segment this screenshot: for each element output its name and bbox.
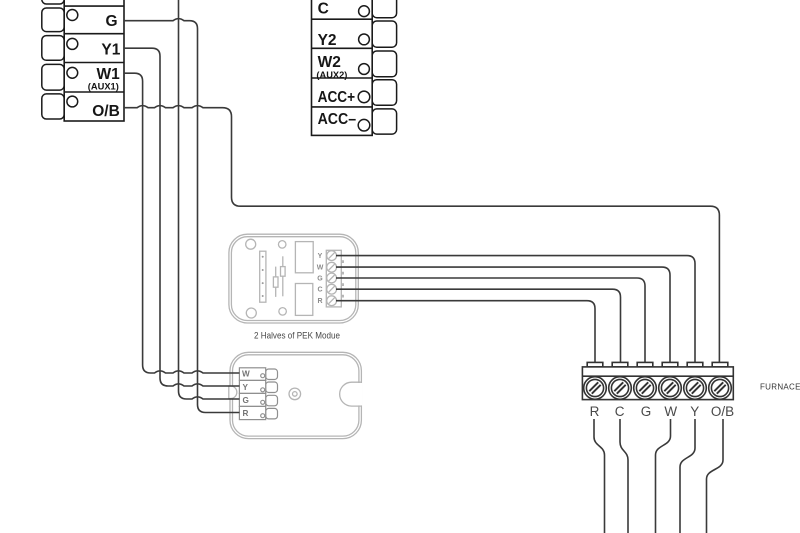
terminal tab Y2: [372, 21, 396, 47]
furnace screw W: [659, 377, 682, 400]
backplate outer case: [230, 352, 361, 438]
wire PEK G to furnace G: [336, 278, 645, 363]
terminal tab W: [266, 369, 278, 380]
svg-text:G: G: [317, 276, 323, 283]
screw hole G: [67, 10, 78, 21]
svg-text:O/B: O/B: [711, 404, 734, 419]
furnace screw G: [634, 377, 657, 400]
component lead right: [282, 256, 284, 296]
left block body: [64, 0, 124, 121]
PEK mounting hole top-left: [246, 239, 256, 249]
relay box top: [295, 242, 313, 273]
svg-text:R: R: [243, 409, 249, 418]
terminal row Y: [239, 380, 265, 393]
screw hole O/B: [67, 96, 78, 107]
row screw W: [261, 374, 265, 378]
row line W1/OB: [64, 91, 124, 93]
backplate inner case line: [233, 355, 359, 436]
svg-text:W: W: [317, 265, 324, 272]
screw hole W1: [67, 67, 78, 78]
screw hole Y2: [359, 34, 370, 45]
screw hole ACC-: [358, 119, 370, 131]
center screw hole outer: [289, 388, 301, 400]
terminal row W: [239, 368, 265, 381]
svg-text:C: C: [615, 404, 625, 419]
wire below furnace Y: [680, 419, 695, 533]
furnace screw C: [609, 377, 632, 400]
wire clamp tab R: [587, 362, 603, 367]
svg-text:ACC–: ACC–: [318, 111, 357, 128]
svg-text:R: R: [590, 404, 600, 419]
PEK screw W: [327, 262, 337, 272]
wire Y1 to backplate Y: [124, 48, 239, 386]
component body left: [273, 277, 278, 287]
relay box bottom: [295, 284, 312, 316]
furnace strip body: [582, 367, 733, 400]
furnace screw R: [584, 377, 607, 400]
svg-text:(AUX1): (AUX1): [88, 82, 119, 92]
svg-text:G: G: [105, 13, 117, 30]
svg-text:W: W: [242, 370, 250, 379]
row line Y1/W1: [64, 62, 124, 64]
furnace screw Y: [684, 377, 707, 400]
wire W1 to backplate W: [124, 73, 239, 373]
wire from top (Rc) down to backplate G: [179, 0, 240, 399]
terminal row R: [239, 406, 265, 419]
terminal tab C (partial): [372, 0, 396, 18]
svg-text:W: W: [664, 404, 677, 419]
svg-text:G: G: [243, 396, 249, 405]
wire PEK Y to furnace Y: [336, 256, 695, 363]
PEK screw R: [327, 296, 337, 306]
wire PEK W to furnace W: [336, 267, 670, 362]
PEK hole top-middle: [278, 241, 286, 249]
component lead left: [275, 267, 277, 297]
svg-text:Y2: Y2: [318, 32, 337, 49]
row line G/Y1: [64, 33, 124, 35]
svg-text:C: C: [317, 287, 322, 294]
wire PEK C to furnace C: [336, 289, 621, 362]
PEK mounting hole bottom-left: [246, 308, 256, 318]
wire PEK R to furnace R: [336, 301, 595, 363]
wire clamp tab C: [612, 362, 628, 367]
svg-text:Y1: Y1: [101, 42, 120, 59]
middle block body: [312, 0, 373, 135]
PEK screw G: [327, 273, 337, 283]
row line Y2/W2: [312, 47, 373, 49]
svg-text:Y: Y: [318, 253, 323, 260]
screw hole C: [359, 6, 370, 17]
PEK terminal block: [326, 250, 341, 307]
row line C/Y2: [312, 18, 373, 20]
row screw R: [261, 414, 265, 418]
terminal tab W1: [42, 64, 64, 90]
PEK pin header strip: [260, 251, 266, 302]
wire clamp tab G: [637, 362, 653, 367]
row screw Y: [261, 388, 265, 392]
wire G to backplate R: [124, 19, 239, 413]
svg-text:C: C: [318, 1, 329, 18]
svg-text:Y: Y: [690, 404, 699, 419]
screw hole Y1: [67, 38, 78, 49]
PEK inner case line: [231, 237, 355, 321]
svg-text:G: G: [641, 404, 652, 419]
wire O/B to furnace O/B: [124, 106, 719, 363]
wire clamp tab Y: [687, 362, 703, 367]
header pin dots: [262, 256, 264, 258]
terminal tab O/B: [42, 94, 64, 119]
terminal tab ACC-: [372, 109, 396, 134]
svg-text:2 Halves of PEK Modue: 2 Halves of PEK Modue: [254, 330, 340, 340]
svg-text:ACC+: ACC+: [318, 89, 356, 106]
PEK outer case: [229, 234, 358, 323]
terminal row G: [239, 393, 265, 406]
wire below furnace C: [620, 419, 628, 533]
wire clamp tab O/B: [712, 362, 728, 367]
row line W2/ACC+: [312, 77, 373, 79]
row screw G: [261, 400, 265, 404]
row line above G: [64, 5, 124, 7]
terminal tab Y: [266, 382, 278, 393]
furnace screw O/B: [709, 377, 732, 400]
terminal tab G: [42, 8, 64, 32]
component body right: [281, 267, 286, 277]
terminal tab W2: [372, 51, 396, 77]
PEK terminal block teeth: [341, 261, 343, 297]
terminal tab Rc (partial, cut off top): [42, 0, 64, 4]
terminal tab ACC+: [372, 80, 396, 106]
svg-text:(AUX2): (AUX2): [316, 70, 347, 80]
terminal tab G: [266, 395, 278, 406]
PEK hole bottom-middle: [279, 308, 287, 316]
strip divider: [582, 375, 733, 377]
screw hole ACC+: [358, 91, 370, 103]
PEK screw C: [327, 284, 337, 294]
wire below furnace R: [594, 419, 605, 533]
left wire notch: [229, 386, 237, 399]
svg-text:R: R: [317, 298, 322, 305]
wire below furnace O/B: [707, 419, 724, 533]
svg-text:FURNACE: FURNACE: [760, 382, 800, 391]
wire clamp tab W: [662, 362, 678, 367]
row line ACC+/ACC-: [312, 106, 373, 108]
svg-text:W1: W1: [97, 66, 121, 83]
terminal tab R: [266, 408, 278, 419]
PEK screw Y: [327, 251, 337, 261]
terminal tab Y1: [42, 36, 64, 61]
svg-text:W2: W2: [318, 54, 341, 71]
svg-text:O/B: O/B: [92, 103, 120, 120]
right notch: [346, 383, 362, 405]
center screw hole inner: [293, 392, 298, 397]
screw hole W2: [359, 64, 370, 75]
svg-text:Y: Y: [243, 383, 249, 392]
wire below furnace W: [656, 419, 671, 533]
